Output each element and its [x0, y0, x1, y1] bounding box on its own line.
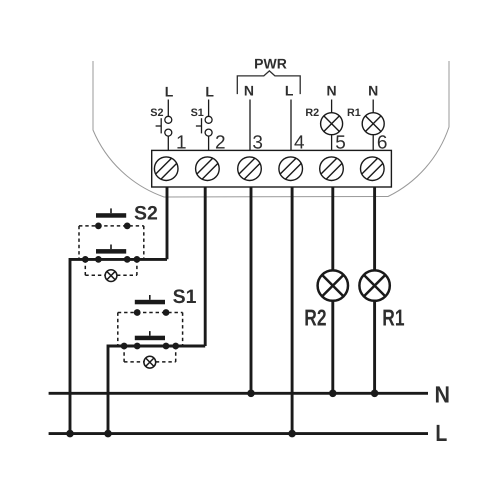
svg-text:L: L [205, 83, 214, 99]
svg-text:1: 1 [176, 132, 187, 153]
svg-text:S1: S1 [173, 286, 197, 308]
screw terminal 6 [361, 157, 385, 181]
push contact S2 [156, 116, 172, 136]
screw terminal 1 [154, 157, 178, 181]
junction dot lampR2-N [329, 390, 337, 398]
switch S1 button 2 [149, 331, 151, 336]
junction dots S2 [82, 256, 89, 263]
wire S1 contact to terminal 2 [208, 136, 210, 150]
terminal block [152, 150, 392, 187]
indicator lamp R2 small [321, 113, 343, 135]
switch S2 neon lamp branch [85, 259, 137, 275]
svg-text:R2: R2 [304, 304, 326, 330]
switch S2 button1 pin dots [95, 223, 102, 230]
svg-text:R2: R2 [305, 107, 319, 119]
svg-text:5: 5 [335, 132, 346, 153]
lamp R2 [318, 270, 348, 300]
wire lamp R2 to N bus [331, 301, 334, 394]
svg-text:N: N [435, 381, 451, 407]
wire terminal 1 down to S2 switch [166, 187, 169, 259]
wire N to lamp R1 [372, 100, 374, 113]
junction dot lampR1-N [371, 390, 379, 398]
N bus [49, 392, 428, 395]
svg-text:6: 6 [377, 132, 388, 153]
svg-text:3: 3 [252, 132, 263, 153]
svg-text:R1: R1 [347, 107, 361, 119]
switch S1 button 1 [149, 295, 151, 300]
device outline [93, 61, 449, 197]
svg-text:S1: S1 [191, 107, 204, 119]
wire terminal 3 down to N bus [250, 187, 253, 393]
wire lamp R1 to N bus [373, 301, 376, 394]
wire terminal 6 to lamp R1 [373, 187, 376, 271]
wire N to terminal 3 [249, 100, 251, 151]
L bus [49, 432, 428, 435]
screw terminal 3 [238, 157, 262, 181]
junction dots S1 [121, 343, 128, 350]
switch S2 button 1 [110, 208, 112, 213]
junction dot S1-L [104, 430, 112, 438]
wire terminal 2 down to S1 switch [204, 187, 207, 346]
svg-text:L: L [165, 83, 174, 99]
wire terminal 4 down to L bus [291, 187, 294, 434]
wire N to lamp R2 [331, 100, 333, 113]
svg-text:R1: R1 [382, 304, 404, 330]
svg-text:PWR: PWR [254, 55, 287, 71]
wire L bus to S2 to terminal [70, 259, 167, 433]
svg-text:N: N [244, 83, 254, 99]
screw terminal 4 [279, 157, 303, 181]
svg-text:N: N [327, 83, 337, 99]
screw terminal 2 [196, 157, 220, 181]
switch S1 button1 pin dots [134, 309, 141, 316]
wire terminal 5 to lamp R2 [331, 187, 334, 271]
lamp R1 [359, 270, 389, 300]
switch S2 dashed enclosure [79, 226, 144, 260]
junction dot terminal4-L [288, 430, 296, 438]
svg-text:S2: S2 [134, 203, 158, 225]
svg-text:4: 4 [294, 132, 305, 153]
screw terminal 5 [320, 157, 344, 181]
switch S1 neon lamp branch [124, 346, 176, 362]
switch S1 neon lamp [144, 356, 156, 368]
wire lamp R1 to terminal 6 [372, 135, 374, 151]
junction dot terminal3-N [247, 390, 255, 398]
switch S2 button 2 [110, 245, 112, 250]
wire lamp R2 to terminal 5 [331, 135, 333, 151]
wire L to terminal 4 [290, 100, 292, 151]
wire S2 contact to terminal 1 [167, 136, 169, 150]
svg-text:L: L [285, 83, 294, 99]
svg-text:2: 2 [215, 132, 226, 153]
svg-text:N: N [368, 83, 378, 99]
wire L bus to S1 to terminal [108, 346, 205, 434]
PWR bracket [237, 71, 300, 94]
indicator lamp R1 small [362, 113, 384, 135]
junction dot S2-L [66, 430, 74, 438]
wire L to S2 contact [167, 100, 169, 117]
push contact S1 [196, 116, 212, 136]
wire L to S1 contact [208, 100, 210, 117]
switch S1 dashed enclosure [118, 313, 183, 347]
svg-text:L: L [435, 420, 447, 446]
svg-text:S2: S2 [150, 107, 163, 119]
switch S2 neon lamp [105, 270, 117, 282]
